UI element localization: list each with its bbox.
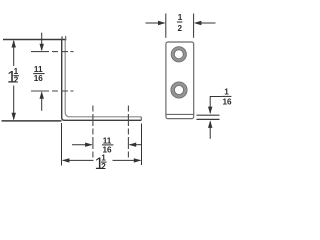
svg-text:11: 11 [34,65,43,74]
dimension 1/16: up arrowhead [208,120,212,128]
bracket front-view bend line [166,113,194,115]
wire: bottom-left extension line [2,120,62,122]
dimension 1/16: down arrowhead [208,107,212,115]
dimension 11/16 (vertical): down arrowhead [40,44,44,52]
value label 1/16 [222,88,232,107]
value label 11/16 (bottom) [102,136,113,154]
svg-text:1: 1 [224,88,229,97]
hole H1 outer circle [171,47,186,62]
centerline: left hole axis in bottom leg [92,106,94,159]
wire: right extension line from plate bottom [197,118,220,120]
value label 1/2 (top) [177,13,183,33]
dimension 1-1/2 (bottom): right-pointing arrowhead [134,158,142,162]
dimension 1/2 (top): right segment [195,22,216,24]
bracket side-view inner edge with fillet [65,40,141,117]
dimension 11/16 (bottom): left segment [72,144,92,146]
value label 11/16 (upper) [33,65,44,83]
dimension 11/16 (vertical): upper segment [41,33,43,50]
centerline: lower hole axis (side view) [31,90,74,92]
dimension 11/16 (vertical): up arrowhead [40,91,44,99]
value label 1-1/2 (left) [7,67,19,87]
dimension 1-1/2 (bottom): left-pointing arrowhead [62,158,70,162]
hole H2 (front view, lower): countersink ring [173,84,186,97]
wire: top dimension extension line, left [165,14,167,38]
hole H1 (front view, upper): countersink ring [173,48,185,60]
bracket side-view end cap of bottom leg [140,117,142,121]
dimension 1/2 (top): right-pointing arrowhead [158,21,166,25]
wire: leg-top right edge stub above extension line [65,36,67,40]
wire: bottom dimension extension line, right [141,124,143,166]
hole H2 outer circle [171,82,187,98]
wire: top extension line [3,39,66,41]
svg-text:16: 16 [223,98,233,107]
svg-text:2: 2 [14,76,19,85]
wire: right extension line from bend line [197,114,220,116]
hole H1 inner circle [174,50,183,59]
dimension 1/2 (top): left-pointing arrowhead [194,21,202,25]
dimension 11/16 (bottom): right segment [130,144,142,146]
svg-text:2: 2 [178,24,183,33]
centerline: upper hole axis (side view) [31,51,74,53]
dimension 1-1/2 (vertical, left): down arrowhead [12,113,16,121]
dimension 1/2 (top): left segment [146,22,165,24]
wire: bottom dimension extension line, left [61,123,63,166]
svg-text:11: 11 [103,136,112,145]
svg-text:16: 16 [34,74,44,83]
dimension 11/16 (bottom): left-pointing arrowhead [129,143,137,147]
wire: leg-top left edge stub above extension line [61,36,63,40]
dimension 1-1/2 (vertical, left): up arrowhead [12,40,16,48]
dimension 11/16 (bottom): right-pointing arrowhead [85,143,93,147]
bracket side-view outer outline (vertical leg + bottom leg) [62,40,142,121]
value label 1-1/2 (bottom) [95,153,107,173]
dimension 11/16 (vertical): lower segment [41,93,43,111]
wire: top dimension extension line, right [193,14,195,38]
svg-text:2: 2 [101,162,106,171]
dimension 1/16: leader bend and upper segment [210,97,221,113]
bracket front-view plate outline [166,42,194,119]
centerline: right hole axis in bottom leg [127,106,129,159]
svg-text:1: 1 [178,13,183,22]
dimension 1-1/2 (bottom): left segment [63,159,94,161]
dimension 1-1/2 (bottom): right segment [113,159,141,161]
hole H2 inner circle [174,85,183,94]
dimension 1-1/2 (vertical, left): lower stub [13,86,15,120]
dimension 1-1/2 (vertical, left): upper stub [13,41,15,66]
dimension 1/16: lower segment [209,122,211,139]
